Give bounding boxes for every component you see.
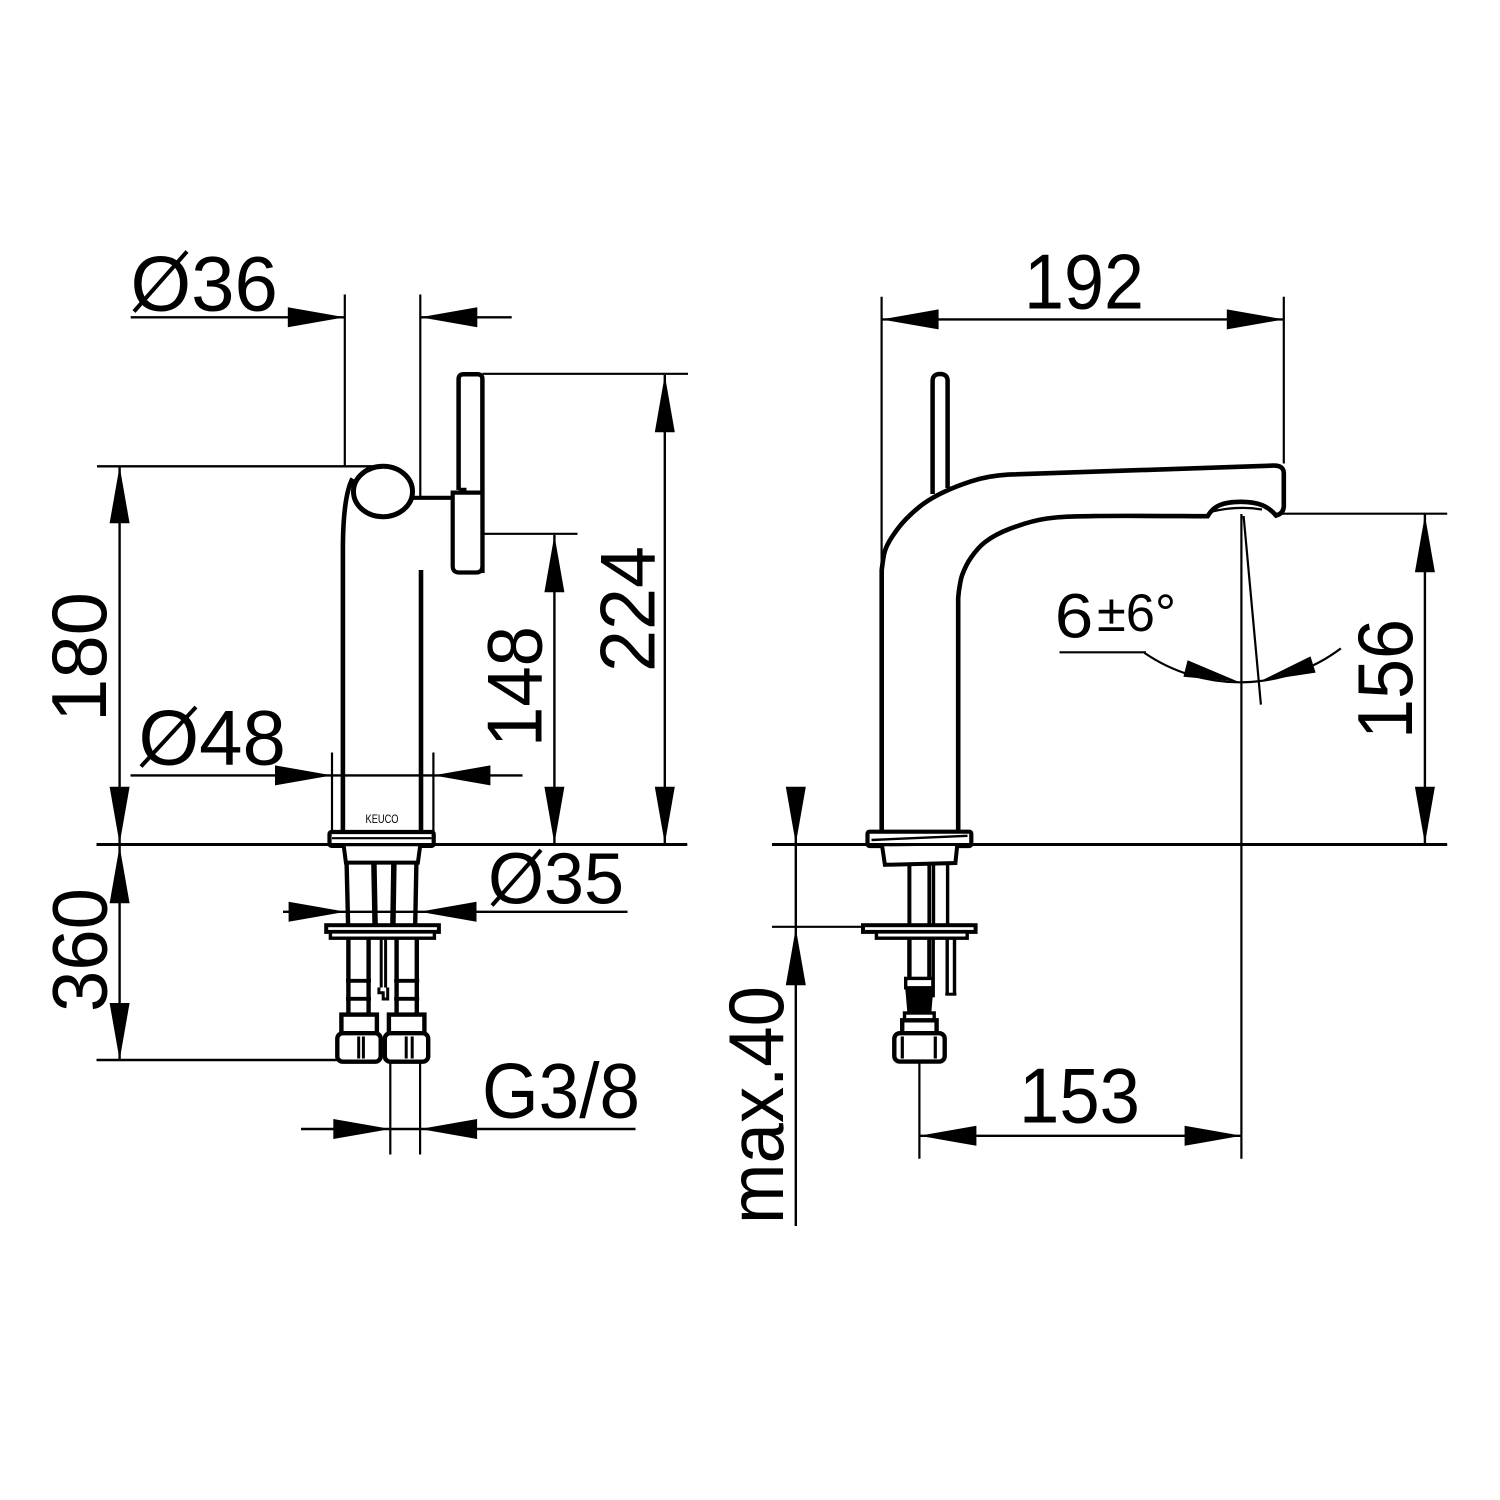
center pull rod (380, 938, 383, 987)
tilted jet line (1244, 516, 1261, 705)
right hex nut (385, 1033, 428, 1062)
svg-text:156: 156 (1341, 619, 1429, 739)
dim G3/8 extension lines (389, 1062, 391, 1155)
hex nut side (894, 1033, 944, 1061)
lever hook step (459, 488, 467, 492)
dim Ø48 line (131, 774, 523, 776)
DIMENSIONS (35, 238, 1447, 1227)
base datum line right view (772, 843, 1447, 846)
dim Ø36 line (131, 316, 345, 318)
180 reference line at ball top (97, 465, 383, 467)
svg-text:±6°: ±6° (1097, 584, 1176, 643)
mounting washer side (863, 925, 976, 932)
svg-text:O36: O36 (131, 240, 278, 328)
right hose tube (394, 938, 398, 1014)
hose collar side (902, 1020, 936, 1033)
dim Ø35 line (283, 911, 628, 913)
dim max.40 line (795, 788, 797, 1226)
mounting cone side (882, 846, 957, 865)
ball joint (354, 466, 413, 516)
dim Ø48 extension lines (331, 753, 333, 832)
svg-text:360: 360 (36, 888, 124, 1012)
dim 156 line (1424, 514, 1426, 845)
left hose tube (346, 938, 350, 1014)
svg-text:180: 180 (35, 592, 123, 722)
dim 192 extension lines (880, 297, 882, 572)
angle leader underline (1060, 651, 1147, 653)
angle arc arrowheads (1183, 660, 1238, 682)
dim 148 reference line (482, 533, 578, 535)
aerator inner line (1212, 508, 1262, 512)
svg-text:max.40: max.40 (712, 986, 800, 1224)
dim 180/360 line (118, 466, 120, 1060)
right hose collar (389, 1015, 425, 1034)
angle arc (1145, 648, 1341, 682)
dim 192 line (882, 318, 1284, 320)
svg-text:224: 224 (584, 546, 672, 672)
left hex nut (337, 1033, 380, 1062)
shank tubes side (907, 865, 911, 925)
svg-text:O35: O35 (488, 840, 624, 920)
shank tubes spread (347, 863, 349, 925)
svg-text:192: 192 (1024, 238, 1144, 326)
left hose collar (341, 1015, 377, 1034)
dim 148 line (553, 535, 555, 845)
connector top edge (411, 496, 453, 500)
hose side (907, 938, 911, 978)
dim G3/8 line (301, 1128, 636, 1130)
mounting washer (326, 925, 439, 932)
FRONT VIEW (97, 374, 482, 1061)
svg-text:O48: O48 (139, 694, 286, 782)
rear fixing rod (932, 938, 935, 997)
dim 156 top reference line (1275, 513, 1448, 515)
SIDE VIEW (863, 374, 1284, 1062)
body profile with spout (882, 466, 1284, 833)
max.40 washer reference line (772, 926, 864, 928)
vertical datum / 153 extension line (1240, 514, 1242, 1159)
body column left edge (343, 479, 353, 832)
base datum line left view (97, 843, 688, 846)
svg-text:148: 148 (471, 626, 559, 747)
svg-text:6: 6 (1055, 581, 1094, 651)
body column right edge (419, 570, 424, 832)
svg-text:KEUCO: KEUCO (366, 812, 399, 826)
base flange side (868, 832, 972, 846)
handle pin (933, 374, 948, 494)
dim 153 line (919, 1135, 1241, 1137)
svg-text:G3/8: G3/8 (482, 1047, 640, 1135)
base flange (330, 832, 434, 846)
dim 224 line (664, 375, 666, 845)
dim 224 reference line (483, 373, 689, 375)
handle socket (453, 493, 483, 573)
mounting cone (344, 846, 420, 862)
lower datum line 360 (97, 1059, 338, 1061)
handle lever bar (459, 374, 483, 573)
svg-text:153: 153 (1019, 1052, 1140, 1140)
dim Ø36 extension lines (344, 295, 346, 466)
dim 153 left extension line (918, 1062, 920, 1159)
